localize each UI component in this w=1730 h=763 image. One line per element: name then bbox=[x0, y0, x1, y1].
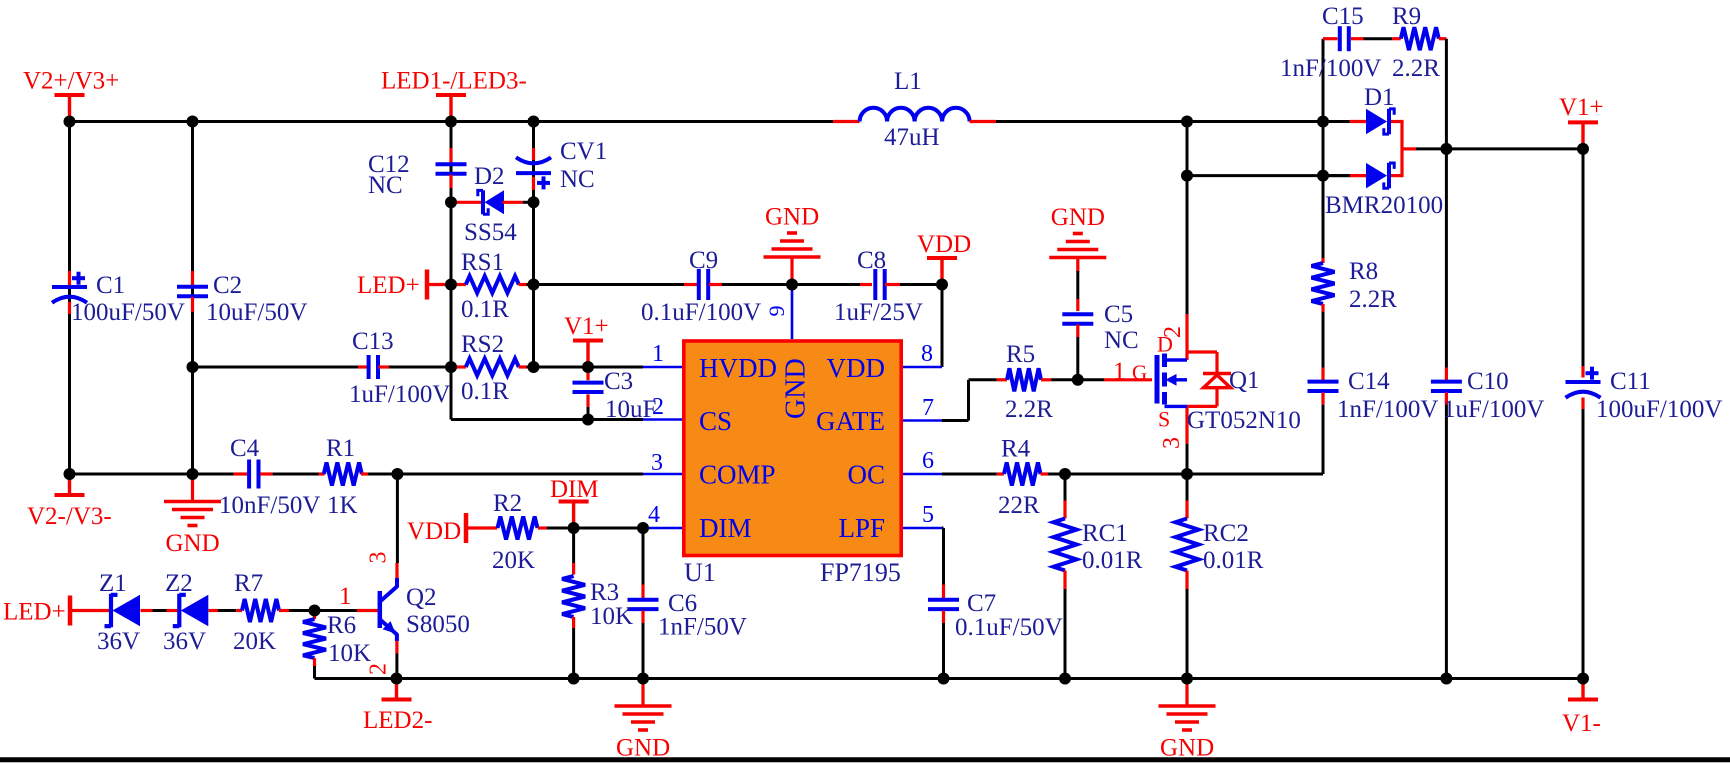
svg-text:2.2R: 2.2R bbox=[1349, 286, 1397, 313]
svg-text:10K: 10K bbox=[590, 603, 633, 630]
svg-text:C14: C14 bbox=[1348, 368, 1390, 395]
svg-text:C15: C15 bbox=[1322, 3, 1364, 30]
svg-text:R5: R5 bbox=[1006, 341, 1035, 368]
svg-text:HVDD: HVDD bbox=[699, 353, 777, 383]
svg-text:OC: OC bbox=[847, 460, 885, 490]
svg-text:7: 7 bbox=[922, 395, 934, 421]
svg-text:C7: C7 bbox=[967, 590, 996, 617]
svg-text:R4: R4 bbox=[1001, 436, 1031, 463]
svg-text:C10: C10 bbox=[1467, 368, 1509, 395]
svg-text:RC2: RC2 bbox=[1203, 520, 1249, 547]
svg-text:100uF/100V: 100uF/100V bbox=[1596, 396, 1722, 423]
svg-text:C1: C1 bbox=[96, 272, 125, 299]
svg-text:0.01R: 0.01R bbox=[1203, 547, 1264, 574]
svg-text:1uF/25V: 1uF/25V bbox=[834, 299, 923, 326]
svg-text:4: 4 bbox=[648, 502, 660, 528]
svg-text:2: 2 bbox=[652, 394, 664, 420]
svg-text:22R: 22R bbox=[998, 492, 1040, 519]
svg-text:VDD: VDD bbox=[917, 231, 971, 258]
svg-text:V1-: V1- bbox=[1562, 710, 1601, 737]
svg-text:100uF/50V: 100uF/50V bbox=[71, 299, 185, 326]
svg-text:3: 3 bbox=[366, 552, 392, 564]
svg-text:1: 1 bbox=[1113, 358, 1126, 385]
svg-text:V1+: V1+ bbox=[564, 313, 609, 340]
svg-text:RC1: RC1 bbox=[1082, 520, 1128, 547]
svg-text:BMR20100: BMR20100 bbox=[1325, 192, 1443, 219]
svg-text:GATE: GATE bbox=[816, 406, 885, 436]
svg-text:1nF/100V: 1nF/100V bbox=[1337, 396, 1438, 423]
svg-text:1nF/50V: 1nF/50V bbox=[658, 614, 747, 641]
svg-text:1K: 1K bbox=[327, 492, 358, 519]
svg-text:3: 3 bbox=[1159, 437, 1185, 449]
svg-text:1: 1 bbox=[652, 341, 664, 367]
svg-text:1uF/100V: 1uF/100V bbox=[349, 381, 450, 408]
svg-text:DIM: DIM bbox=[550, 476, 599, 503]
svg-text:CS: CS bbox=[699, 406, 732, 436]
svg-text:COMP: COMP bbox=[699, 460, 776, 490]
svg-text:S: S bbox=[1158, 407, 1170, 432]
svg-text:2.2R: 2.2R bbox=[1005, 396, 1053, 423]
svg-text:20K: 20K bbox=[492, 547, 535, 574]
svg-text:R1: R1 bbox=[326, 435, 355, 462]
svg-text:0.1uF/100V: 0.1uF/100V bbox=[641, 299, 761, 326]
svg-text:LED+: LED+ bbox=[3, 599, 66, 626]
svg-text:VDD: VDD bbox=[827, 353, 886, 383]
svg-text:C3: C3 bbox=[604, 368, 633, 395]
svg-text:2: 2 bbox=[366, 663, 392, 675]
svg-text:D2: D2 bbox=[474, 163, 505, 190]
svg-text:C4: C4 bbox=[230, 435, 260, 462]
svg-text:3: 3 bbox=[651, 450, 663, 476]
svg-text:NC: NC bbox=[1104, 327, 1139, 354]
svg-text:9: 9 bbox=[764, 306, 789, 317]
svg-text:R6: R6 bbox=[327, 612, 356, 639]
svg-text:R7: R7 bbox=[234, 570, 263, 597]
svg-text:U1: U1 bbox=[684, 558, 716, 587]
svg-text:R2: R2 bbox=[493, 490, 522, 517]
svg-text:10K: 10K bbox=[328, 640, 371, 667]
svg-text:NC: NC bbox=[368, 172, 403, 199]
svg-text:CV1: CV1 bbox=[560, 138, 607, 165]
svg-text:10uF: 10uF bbox=[605, 396, 656, 423]
svg-text:47uH: 47uH bbox=[884, 124, 940, 151]
svg-text:5: 5 bbox=[922, 502, 934, 528]
svg-text:GND: GND bbox=[781, 358, 812, 419]
svg-text:VDD: VDD bbox=[407, 518, 461, 545]
svg-text:NC: NC bbox=[560, 166, 595, 193]
svg-text:C13: C13 bbox=[352, 328, 394, 355]
svg-text:0.1R: 0.1R bbox=[461, 296, 509, 323]
svg-text:RS1: RS1 bbox=[461, 249, 504, 276]
svg-text:C2: C2 bbox=[213, 272, 242, 299]
svg-text:V2-/V3-: V2-/V3- bbox=[27, 503, 112, 530]
svg-text:LED1-/LED3-: LED1-/LED3- bbox=[381, 68, 527, 95]
svg-text:1uF/100V: 1uF/100V bbox=[1443, 396, 1544, 423]
svg-text:2.2R: 2.2R bbox=[1392, 55, 1440, 82]
svg-text:36V: 36V bbox=[163, 628, 206, 655]
svg-text:R8: R8 bbox=[1349, 258, 1378, 285]
svg-text:S8050: S8050 bbox=[406, 611, 470, 638]
svg-text:G: G bbox=[1132, 361, 1147, 385]
svg-text:Z1: Z1 bbox=[99, 570, 127, 597]
svg-text:L1: L1 bbox=[894, 68, 922, 95]
svg-text:R3: R3 bbox=[590, 579, 619, 606]
svg-text:V2+/V3+: V2+/V3+ bbox=[23, 68, 119, 95]
svg-text:C9: C9 bbox=[689, 247, 718, 274]
svg-text:0.1R: 0.1R bbox=[461, 378, 509, 405]
svg-text:0.01R: 0.01R bbox=[1082, 547, 1143, 574]
svg-text:LED2-: LED2- bbox=[363, 707, 432, 734]
svg-text:D1: D1 bbox=[1364, 84, 1395, 111]
svg-text:36V: 36V bbox=[97, 628, 140, 655]
svg-text:GND: GND bbox=[1051, 204, 1105, 231]
svg-text:20K: 20K bbox=[233, 628, 276, 655]
svg-text:SS54: SS54 bbox=[464, 219, 517, 246]
svg-text:1: 1 bbox=[339, 583, 352, 610]
svg-text:C8: C8 bbox=[857, 247, 886, 274]
svg-text:GT052N10: GT052N10 bbox=[1187, 407, 1301, 434]
svg-text:DIM: DIM bbox=[699, 513, 752, 543]
svg-text:LED+: LED+ bbox=[357, 272, 420, 299]
svg-text:C5: C5 bbox=[1104, 301, 1133, 328]
svg-text:10uF/50V: 10uF/50V bbox=[206, 299, 307, 326]
svg-text:0.1uF/50V: 0.1uF/50V bbox=[955, 614, 1063, 641]
svg-text:Z2: Z2 bbox=[165, 570, 193, 597]
svg-text:6: 6 bbox=[922, 448, 934, 474]
svg-text:V1+: V1+ bbox=[1559, 94, 1604, 121]
svg-text:LPF: LPF bbox=[838, 513, 885, 543]
svg-text:10nF/50V: 10nF/50V bbox=[219, 492, 320, 519]
svg-text:C11: C11 bbox=[1610, 368, 1651, 395]
svg-text:1nF/100V: 1nF/100V bbox=[1280, 55, 1381, 82]
svg-text:RS2: RS2 bbox=[461, 331, 504, 358]
svg-text:2: 2 bbox=[1160, 326, 1186, 338]
svg-text:8: 8 bbox=[921, 341, 933, 367]
svg-text:FP7195: FP7195 bbox=[820, 558, 901, 587]
svg-text:GND: GND bbox=[166, 530, 220, 557]
svg-text:GND: GND bbox=[765, 204, 819, 231]
svg-text:Q1: Q1 bbox=[1229, 367, 1260, 394]
svg-text:Q2: Q2 bbox=[406, 584, 437, 611]
svg-text:R9: R9 bbox=[1392, 3, 1421, 30]
